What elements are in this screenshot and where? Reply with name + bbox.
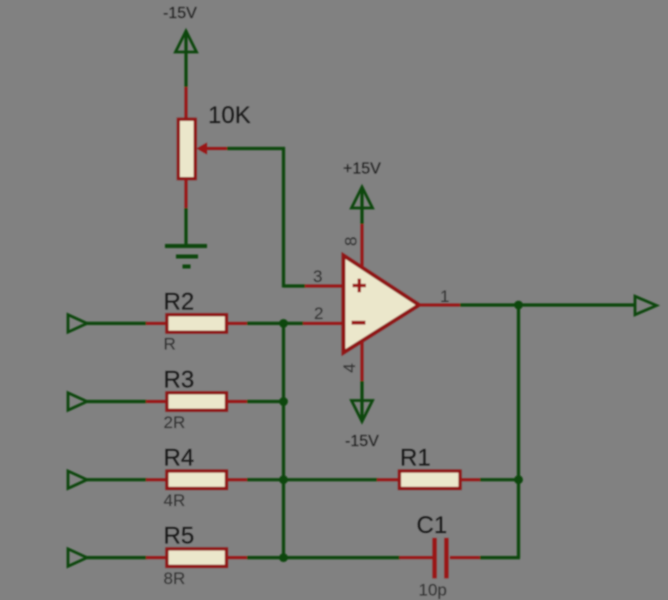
wire (red lead) R4 right <box>226 478 248 481</box>
wire (red lead) R5 left <box>146 556 168 559</box>
op-amp U1 body <box>344 256 420 353</box>
wire terminal to R3 <box>87 400 147 403</box>
svg-text:10p: 10p <box>419 581 447 600</box>
wire (red lead) R5 right <box>226 556 248 559</box>
wire R3 to bus <box>247 400 285 403</box>
wire R4 to R1 <box>247 478 378 481</box>
svg-text:R2: R2 <box>164 288 195 315</box>
resistor R4 body <box>167 471 226 488</box>
capacitor C1 plates <box>433 538 449 578</box>
wire R5 to C1 <box>247 556 400 559</box>
svg-text:+15V: +15V <box>343 161 381 178</box>
svg-text:R3: R3 <box>164 367 195 394</box>
wire (red lead) C1 right <box>450 556 481 559</box>
svg-text:-15V: -15V <box>345 433 379 450</box>
op-amp minus sign <box>352 321 366 325</box>
svg-text:8R: 8R <box>164 569 186 588</box>
wire pin 4 to -15V <box>360 381 363 421</box>
wire +15V to pin 8 <box>360 187 363 224</box>
op-amp plus sign <box>353 279 367 293</box>
power +15V arrow symbol <box>352 187 373 208</box>
wire wiper to pin 3 horizontal <box>227 147 285 150</box>
wire pin 3 green segment <box>284 284 307 287</box>
svg-text:R1: R1 <box>400 445 431 472</box>
junction pin2/bus <box>279 319 288 328</box>
svg-text:C1: C1 <box>417 512 448 539</box>
resistor R1 body <box>400 471 461 488</box>
wire wiper vertical down <box>282 147 285 288</box>
junction R5/bus <box>279 553 288 562</box>
svg-text:-15V: -15V <box>163 5 197 22</box>
wire pot to ground <box>184 208 187 246</box>
wire (red lead) pot wiper <box>205 147 227 150</box>
input terminal row R2 <box>68 315 87 332</box>
wire terminal to R4 <box>87 478 147 481</box>
wire (red lead) pot pin 2 <box>185 179 188 208</box>
junction output/feedback <box>514 301 523 310</box>
wire (red lead) R4 left <box>146 478 168 481</box>
junction R3/bus <box>279 397 288 406</box>
svg-text:10K: 10K <box>208 102 251 129</box>
svg-text:4R: 4R <box>164 491 186 510</box>
wire R1 to feedback node <box>480 478 520 481</box>
ground <box>165 246 207 267</box>
svg-text:8: 8 <box>342 237 361 246</box>
wire (red lead) R3 right <box>226 400 248 403</box>
potentiometer wiper arrow <box>197 143 208 155</box>
svg-text:1: 1 <box>440 287 449 306</box>
wire pot top to -15V <box>184 31 187 87</box>
output terminal <box>635 296 657 314</box>
wire (red lead) op-amp pin 8 <box>361 224 364 268</box>
wire (red lead) op-amp pin 3 <box>305 285 345 288</box>
wire R2 to pin 2 <box>247 322 304 325</box>
power -15V (bottom) arrow symbol <box>352 401 373 422</box>
wire output to terminal <box>460 303 635 306</box>
input terminal row R5 <box>68 549 87 566</box>
junction R1/feedback <box>514 475 523 484</box>
resistor R5 body <box>167 549 226 566</box>
wire (red lead) op-amp pin 2 <box>303 322 345 325</box>
wire terminal to R2 <box>87 322 147 325</box>
svg-text:3: 3 <box>313 267 322 286</box>
input terminal row R4 <box>68 471 87 488</box>
svg-text:R4: R4 <box>164 445 195 472</box>
svg-text:R: R <box>164 335 176 354</box>
svg-text:2: 2 <box>314 304 323 323</box>
wire terminal to R5 <box>87 556 147 559</box>
wire (red lead) op-amp pin 4 <box>361 341 364 381</box>
svg-text:4: 4 <box>340 363 359 372</box>
power -15V (top) arrow symbol <box>176 31 197 52</box>
wire (red lead) pot pin 1 <box>185 87 188 120</box>
wire (red lead) R3 left <box>146 400 168 403</box>
resistor R3 body <box>167 393 226 410</box>
potentiometer 10K body <box>178 119 195 178</box>
svg-text:2R: 2R <box>164 413 186 432</box>
wire (red lead) R2 right <box>226 322 248 325</box>
wire (red lead) C1 left <box>399 556 432 559</box>
wire C1 to feedback corner <box>480 556 520 559</box>
wire (red lead) op-amp pin 1 output <box>419 304 461 307</box>
input terminal row R3 <box>68 393 87 410</box>
feedback vertical wire <box>517 305 520 558</box>
junction R4/bus <box>279 475 288 484</box>
wire (red lead) R2 left <box>146 322 168 325</box>
summing bus vertical wire <box>282 323 285 557</box>
wire (red lead) R1 right <box>460 478 481 481</box>
svg-text:R5: R5 <box>164 523 195 550</box>
wire (red lead) R1 left <box>377 478 400 481</box>
resistor R2 body <box>167 315 226 332</box>
